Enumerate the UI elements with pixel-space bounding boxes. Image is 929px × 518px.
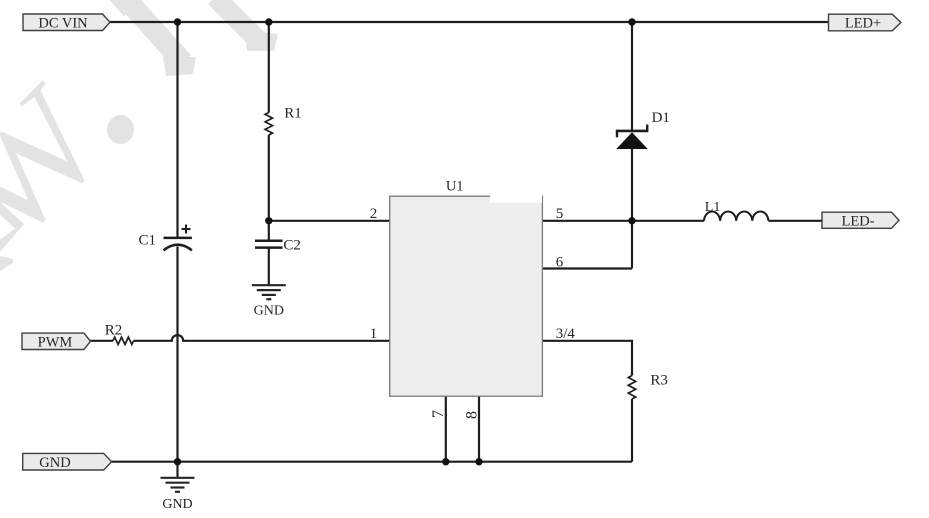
junction node bbox=[174, 18, 181, 25]
wire pin6 bbox=[542, 267, 632, 269]
port LED+ bbox=[829, 14, 901, 32]
capacitor C1 (polarized) bbox=[138, 225, 191, 251]
svg-text:PWM: PWM bbox=[38, 335, 73, 351]
inductor L1 bbox=[704, 200, 768, 221]
junction node bbox=[265, 217, 272, 224]
svg-text:1: 1 bbox=[370, 326, 378, 342]
ground below C2 bbox=[252, 285, 286, 318]
svg-text:W: W bbox=[0, 56, 136, 274]
capacitor C2 bbox=[255, 237, 301, 253]
svg-text:5: 5 bbox=[556, 206, 564, 222]
watermark bbox=[0, 0, 278, 273]
svg-text:R2: R2 bbox=[105, 323, 123, 339]
wire pin5 / LED- bbox=[542, 220, 822, 222]
svg-text:LED+: LED+ bbox=[845, 16, 881, 32]
wire GND bottom rail bbox=[111, 461, 632, 463]
wire D1 branch vertical bbox=[631, 22, 633, 269]
pin 3/4 label bbox=[556, 326, 576, 342]
wire pin7 bbox=[445, 396, 447, 462]
svg-text:DC VIN: DC VIN bbox=[38, 15, 88, 31]
svg-text:D1: D1 bbox=[652, 110, 670, 126]
junction node bbox=[628, 18, 635, 25]
pin 1 label bbox=[370, 326, 378, 342]
svg-text:2: 2 bbox=[370, 206, 378, 222]
junction node bbox=[265, 18, 272, 25]
svg-text:R1: R1 bbox=[284, 106, 302, 122]
junction node bbox=[442, 458, 449, 465]
resistor R3 bbox=[628, 373, 668, 400]
pin 8 label bbox=[464, 411, 481, 419]
wire pin2 bbox=[269, 220, 390, 222]
svg-text:GND: GND bbox=[39, 455, 70, 471]
ground bottom bbox=[161, 478, 195, 512]
pin 2 label bbox=[370, 206, 378, 222]
diode D1 (schottky, cathode up) bbox=[616, 110, 670, 149]
svg-text:C1: C1 bbox=[138, 233, 156, 249]
svg-text:L1: L1 bbox=[705, 200, 721, 215]
port LED- bbox=[822, 212, 899, 229]
svg-text:U1: U1 bbox=[446, 179, 464, 195]
wire pin8 bbox=[478, 396, 480, 462]
op-amp/IC U1 bbox=[390, 179, 543, 397]
svg-text:R3: R3 bbox=[650, 373, 668, 389]
pin 5 label bbox=[556, 206, 564, 222]
pin 7 label bbox=[430, 410, 447, 418]
resistor R2 bbox=[105, 323, 134, 345]
pin 6 label bbox=[556, 254, 564, 270]
port DC VIN bbox=[23, 14, 110, 31]
wire C1 branch vertical bbox=[176, 22, 178, 462]
wire R1/C2 branch vertical bbox=[268, 22, 270, 286]
port GND bbox=[23, 453, 112, 471]
svg-text:3/4: 3/4 bbox=[556, 326, 576, 342]
svg-text:C2: C2 bbox=[283, 237, 301, 253]
svg-text:8: 8 bbox=[464, 411, 481, 419]
svg-text:7: 7 bbox=[430, 410, 447, 418]
wire pin1 / PWM with hop bbox=[91, 335, 390, 341]
resistor R1 bbox=[265, 106, 302, 136]
svg-text:GND: GND bbox=[254, 304, 284, 319]
wire VIN top rail bbox=[110, 21, 829, 23]
svg-text:LED-: LED- bbox=[841, 213, 874, 229]
junction node bbox=[475, 458, 482, 465]
junction node bbox=[174, 458, 181, 465]
wire pin3/4 to R3 bbox=[542, 341, 632, 462]
svg-text:6: 6 bbox=[556, 254, 564, 270]
junction node bbox=[628, 217, 635, 224]
port PWM bbox=[22, 333, 91, 350]
svg-text:GND: GND bbox=[162, 497, 192, 512]
wire bottom ground stub bbox=[176, 462, 178, 478]
